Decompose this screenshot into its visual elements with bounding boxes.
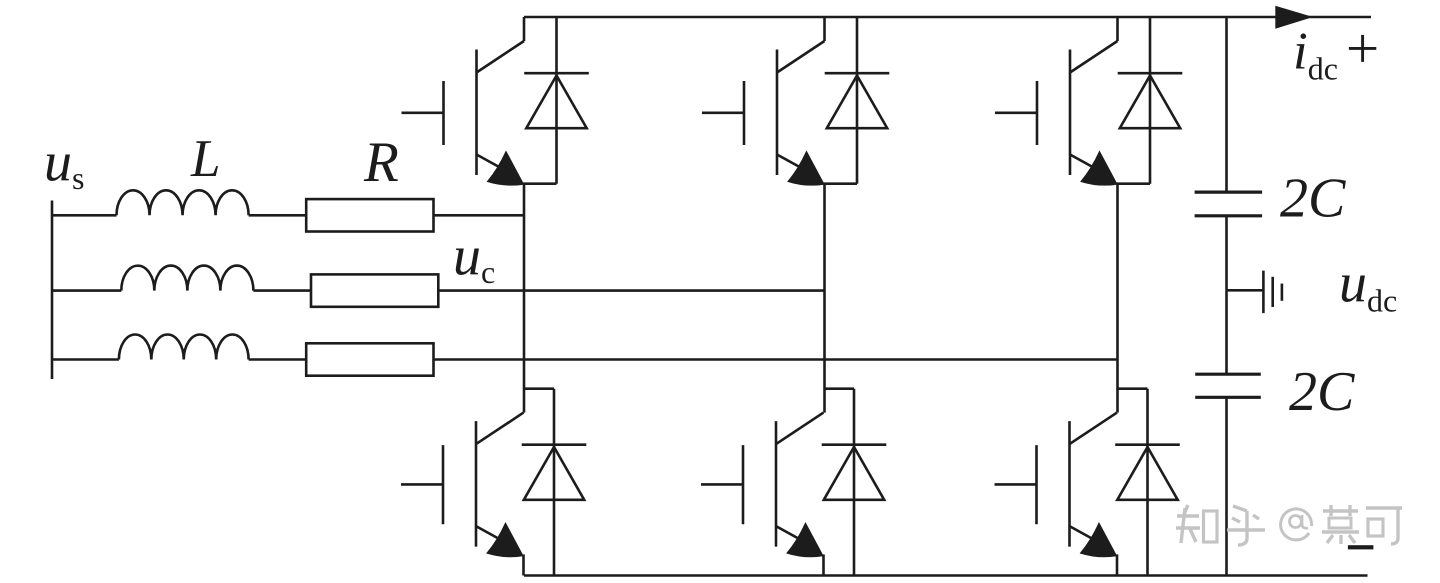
wire: leg vertical to diode cathode stub (leg 3) [1117, 387, 1148, 390]
wire: C1 to midpoint [1225, 217, 1228, 290]
transistor Q4 (IGBT, lower leg) [401, 413, 524, 557]
wire: emitter junction to diode anode (leg 1) [523, 182, 557, 185]
ground (DC midpoint) [1227, 271, 1282, 314]
wire: source bus to inductor L2 (phase b) [52, 289, 121, 292]
diode D6 (freewheeling, lower leg) [1115, 389, 1180, 576]
transistor Q2 (IGBT, upper leg) [702, 17, 825, 185]
wire: inductor L2 to resistor R2 [253, 289, 311, 292]
node us: three-phase source bus [51, 201, 54, 380]
wire: emitter to negative rail (leg 2) [822, 554, 825, 575]
inductor L1 (phase a) [117, 190, 249, 215]
transistor Q5 (IGBT, lower leg) [701, 413, 824, 557]
wire: emitter junction to diode anode (leg 3) [1117, 182, 1151, 185]
diode D4 (freewheeling, lower leg) [522, 389, 587, 576]
wire: C2 to negative rail [1225, 399, 1228, 576]
label - (negative terminal) [1348, 545, 1374, 549]
wire: phase leg vertical (leg 2) [823, 184, 826, 413]
inductor L3 (phase c) [119, 334, 249, 359]
wire: emitter junction to diode anode (leg 2) [824, 182, 858, 185]
diode D5 (freewheeling, lower leg) [822, 389, 887, 576]
svg-text:2C: 2C [1289, 361, 1355, 423]
arrow: idc current direction on positive rail [1275, 6, 1313, 29]
capacitor C2 (2C lower) [1195, 374, 1261, 397]
resistor R1 (phase a) [306, 199, 433, 231]
svg-text:idc: idc [1293, 23, 1338, 87]
svg-text:R: R [363, 131, 399, 194]
transistor Q1 (IGBT, upper leg) [402, 17, 525, 185]
wire: leg vertical to diode cathode stub (leg 2) [824, 387, 855, 390]
resistor R2 (phase b) [311, 274, 438, 306]
wire: positive DC rail [524, 16, 1371, 19]
diode D2 (freewheeling, upper leg) [825, 17, 890, 184]
transistor Q3 (IGBT, upper leg) [995, 17, 1118, 185]
svg-text:us: us [44, 131, 84, 196]
wire: resistor R3 to bridge leg 3 (phase node c) [434, 358, 1118, 361]
svg-text:uc: uc [453, 226, 495, 291]
transistor Q6 (IGBT, lower leg) [995, 413, 1118, 557]
wire: inductor L3 to resistor R3 [249, 358, 307, 361]
label + (positive terminal) [1349, 35, 1376, 62]
wire: phase leg vertical (leg 1) [523, 184, 526, 413]
wire: midpoint to C2 [1225, 290, 1228, 374]
wire: leg vertical to diode cathode stub (leg 1) [524, 387, 555, 390]
diode D3 (freewheeling, upper leg) [1118, 17, 1183, 184]
wire: source bus to inductor L3 (phase c) [52, 358, 119, 361]
capacitor C1 (2C upper) [1195, 192, 1263, 216]
wire: emitter to negative rail (leg 3) [1116, 554, 1119, 575]
wire: inductor L1 to resistor R1 [249, 214, 307, 217]
inductor L2 (phase b) [121, 266, 253, 291]
wire: resistor R2 to bridge leg 2 (phase node b) [438, 289, 824, 292]
resistor R3 (phase c) [306, 343, 433, 375]
wire: negative DC rail [524, 574, 1368, 577]
wire: resistor R1 to bridge leg 1 (phase node a) [434, 214, 525, 217]
svg-text:2C: 2C [1280, 167, 1346, 229]
wire: phase leg vertical (leg 3) [1116, 184, 1119, 413]
watermark [1176, 505, 1402, 545]
wire: source bus to inductor L1 (phase a) [52, 214, 117, 217]
svg-text:L: L [190, 130, 220, 188]
diode D1 (freewheeling, upper leg) [524, 17, 589, 184]
wire: emitter to negative rail (leg 1) [522, 554, 525, 575]
wire: DC link branch upper [1225, 17, 1228, 192]
svg-text:udc: udc [1339, 252, 1397, 318]
